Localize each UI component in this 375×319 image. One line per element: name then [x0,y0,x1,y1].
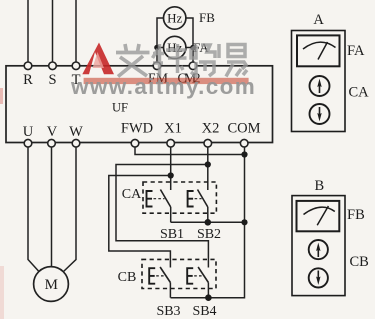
wire SB1 bottom [170,207,172,222]
svg-text:A: A [313,12,324,28]
wire FA meter stub right [186,47,193,49]
motor M [34,267,69,302]
terminal CM2 [189,62,197,70]
wire X2 vertical to SB2 [207,147,209,190]
junction X1 tap [168,172,174,178]
pushbutton SB2 actuator E [188,191,202,207]
wire SB1 SB2 bottom rail [171,221,245,223]
wire input phase S [52,0,54,62]
terminal S [49,62,57,70]
watermark char ai [116,44,150,77]
wire W to motor [64,147,77,272]
pushbutton SB4 actuator E [187,268,202,284]
svg-text:SB3: SB3 [156,304,180,319]
junction FWD-COM [241,151,247,157]
svg-text:CB: CB [350,254,369,270]
junction SB4 bottom [205,294,212,301]
knob CA down [310,104,330,124]
wire CM2 meter lead [186,18,193,62]
terminal FWD [131,139,139,147]
svg-text:CA: CA [122,187,142,202]
junction X2 tap [205,161,211,167]
wire X1 detour to SB3 [109,176,171,268]
svg-text:X1: X1 [164,120,182,136]
dashed enclosure CB [142,259,216,288]
svg-text:R: R [23,72,33,88]
svg-text:FWD: FWD [121,120,153,136]
terminal T [72,62,80,70]
wire input phase R [27,0,29,62]
svg-text:SB2: SB2 [197,227,221,242]
meter FB display [297,201,340,231]
knob CB up [309,240,328,259]
wire X1 vertical to SB1 [170,147,172,190]
wire FM meter lead [157,18,164,62]
wire input phase T [75,0,77,62]
pushbutton SB3 actuator E [149,268,164,284]
terminal W [72,139,80,147]
meter FB (Hz) [164,7,186,29]
svg-text:S: S [48,72,56,88]
svg-text:UF: UF [112,101,128,115]
wire COM vertical [171,147,245,298]
knob CB down [309,268,328,287]
meter FA (Hz) [164,36,186,58]
svg-text:COM: COM [227,120,260,136]
pushbutton SB4 contact blade [198,267,208,283]
meter FA display [297,35,340,66]
watermark left edge remnant bottom [0,266,4,319]
pushbutton SB1 contact blade [160,190,170,208]
junction SB2 bottom [205,219,212,226]
svg-text:Hz: Hz [167,11,182,26]
svg-text:V: V [47,124,58,140]
svg-text:M: M [45,277,58,293]
wire SB2 bottom [207,207,209,222]
svg-text:FB: FB [199,10,215,25]
knob CA up [310,76,330,96]
svg-text:W: W [69,124,83,140]
pushbutton SB2 contact blade [198,190,208,208]
junction rail1-COM [241,219,247,225]
pushbutton SB3 contact blade [160,267,170,283]
svg-text:FB: FB [347,207,365,223]
watermark char yi [226,45,247,77]
wire SB4 bottom [207,283,209,298]
svg-text:CB: CB [118,270,137,285]
wire X2 detour to SB4 [116,165,208,268]
terminal R [24,62,32,70]
svg-text:CA: CA [349,85,370,101]
wire FWD to COM node [135,147,245,155]
svg-text:SB1: SB1 [160,227,184,242]
junction FA right [190,45,196,51]
svg-text:Hz: Hz [167,40,182,55]
terminal U [24,139,32,147]
pushbutton SB1 actuator E [147,191,165,207]
panel A enclosure [292,31,346,132]
wire SB3 bottom [169,283,171,298]
svg-text:X2: X2 [202,120,220,136]
terminal X1 [167,139,175,147]
svg-text:www.aitmy.com: www.aitmy.com [70,74,256,99]
terminal FM [153,62,161,70]
terminal X2 [204,139,212,147]
watermark logo A [82,43,114,75]
watermark char te [153,44,187,77]
wire V to motor [51,147,53,267]
svg-text:FA: FA [347,43,365,59]
wire FA meter stub left [157,47,164,49]
panel B enclosure [292,196,345,296]
svg-text:SB4: SB4 [192,304,216,319]
watermark char mao [191,44,219,76]
junction FA left [154,45,160,51]
svg-text:B: B [314,178,324,194]
inverter UF box [6,66,273,143]
terminal V [48,139,56,147]
dashed enclosure CA [143,182,216,213]
wire U to motor [28,147,39,271]
watermark left edge remnant top [0,88,3,104]
terminal COM [240,139,248,147]
watermark red bar [84,78,249,84]
svg-text:U: U [23,124,34,140]
